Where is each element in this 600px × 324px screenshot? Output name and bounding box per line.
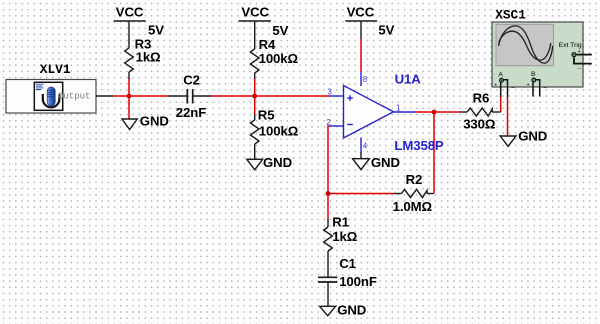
resistor R4: [250, 49, 259, 73]
wire: node B to R5 top: [254, 96, 256, 114]
svg-text:R2: R2: [406, 172, 423, 187]
svg-text:100kΩ: 100kΩ: [259, 124, 299, 139]
svg-text:+: +: [578, 49, 581, 55]
resistor R2: [394, 193, 402, 195]
resistor R6: [459, 111, 467, 113]
svg-text:1kΩ: 1kΩ: [136, 50, 161, 65]
svg-text:VCC: VCC: [241, 5, 269, 20]
svg-text:VCC: VCC: [347, 5, 375, 20]
svg-text:XSC1: XSC1: [495, 7, 526, 22]
VCC symbol 1: [114, 21, 146, 48]
svg-text:100kΩ: 100kΩ: [259, 51, 299, 66]
capacitor C1: [318, 277, 337, 306]
svg-text:1.0MΩ: 1.0MΩ: [393, 199, 433, 214]
wire: scope A- down to GND4: [507, 97, 509, 136]
svg-text:C1: C1: [339, 256, 356, 271]
capacitor C2: [168, 89, 212, 104]
wire: R6 right up to scope A+: [500, 96, 502, 112]
svg-text:+: +: [494, 83, 497, 89]
junction node C: [432, 110, 437, 115]
wire: VCC3 to op-amp pin 8: [360, 39, 362, 72]
junction feedback node: [326, 191, 331, 196]
op-amp U1A: [329, 72, 415, 152]
svg-text:5V: 5V: [148, 22, 164, 37]
wire: R3 bottom to node A: [128, 78, 130, 96]
mic holder: [43, 94, 60, 107]
svg-text:3: 3: [327, 87, 332, 96]
wire: node A to C2 left: [129, 95, 168, 97]
ground GND5: [320, 306, 336, 316]
wire: C2 right to node B: [212, 95, 255, 97]
VCC symbol 2: [239, 21, 271, 49]
wire: mic output to node A: [113, 95, 129, 97]
wire: node B to op-amp pin 3: [255, 95, 329, 97]
svg-text:1kΩ: 1kΩ: [332, 229, 357, 244]
svg-text:_: _: [577, 64, 581, 70]
svg-text:5V: 5V: [378, 23, 394, 38]
junction node B: [252, 94, 257, 99]
microphone instrument XLV1: [6, 80, 96, 114]
svg-text:GND: GND: [337, 302, 366, 317]
svg-text:U1A: U1A: [395, 72, 422, 87]
junction node A: [127, 94, 132, 99]
wire: R4 bottom to node B: [254, 78, 256, 96]
ground GND1: [122, 119, 137, 130]
svg-text:R6: R6: [473, 91, 490, 106]
ground GND3: [353, 159, 370, 170]
svg-text:330Ω: 330Ω: [463, 117, 496, 132]
svg-text:Output: Output: [58, 92, 90, 102]
svg-text:GND: GND: [263, 155, 292, 170]
svg-text:B: B: [531, 71, 536, 78]
wire: feedback node down to R1: [327, 194, 329, 220]
svg-text:22nF: 22nF: [176, 105, 206, 120]
wire: feedback node to R2 left: [328, 193, 394, 195]
svg-text:LM358P: LM358P: [394, 138, 444, 153]
wire pin4 to GND3: [360, 152, 362, 159]
resistor R1: [327, 219, 329, 227]
wire: op-amp pin 2 to feedback node: [328, 126, 329, 194]
VCC symbol 3: [345, 21, 377, 39]
svg-text:XLV1: XLV1: [40, 62, 71, 77]
resistor R3: [125, 48, 134, 72]
svg-text:VCC: VCC: [116, 5, 144, 20]
svg-text:2: 2: [326, 118, 331, 127]
pin Output: [96, 95, 113, 97]
ground GND4 (scope): [500, 136, 516, 146]
wire: op-amp output to node C: [415, 111, 434, 113]
svg-text:Ext Trig: Ext Trig: [559, 42, 582, 49]
wire: node C to R6: [434, 111, 459, 113]
mic capsule: [47, 87, 55, 106]
scope waveform B: [499, 31, 551, 60]
wire: node A to GND1: [128, 96, 130, 119]
svg-text:A: A: [498, 72, 503, 79]
mic icon tiny header block: [36, 84, 44, 89]
svg-text:_: _: [543, 83, 547, 89]
svg-text:R5: R5: [258, 108, 275, 123]
resistor R5: [254, 114, 256, 120]
svg-text:8: 8: [363, 75, 368, 84]
svg-text:R1: R1: [332, 214, 349, 229]
svg-text:C2: C2: [183, 73, 200, 88]
svg-text:100nF: 100nF: [339, 274, 377, 289]
ground GND2: [247, 159, 263, 170]
svg-text:1: 1: [396, 104, 401, 113]
svg-text:GND: GND: [518, 128, 547, 143]
svg-text:GND: GND: [140, 113, 169, 128]
scope waveform A: [499, 26, 553, 63]
svg-text:5V: 5V: [272, 23, 288, 38]
svg-text:4: 4: [363, 142, 368, 151]
svg-text:GND: GND: [371, 155, 400, 170]
svg-text:_: _: [510, 83, 514, 89]
wire: node C down to R2 right: [433, 112, 435, 194]
svg-text:+: +: [527, 82, 530, 88]
